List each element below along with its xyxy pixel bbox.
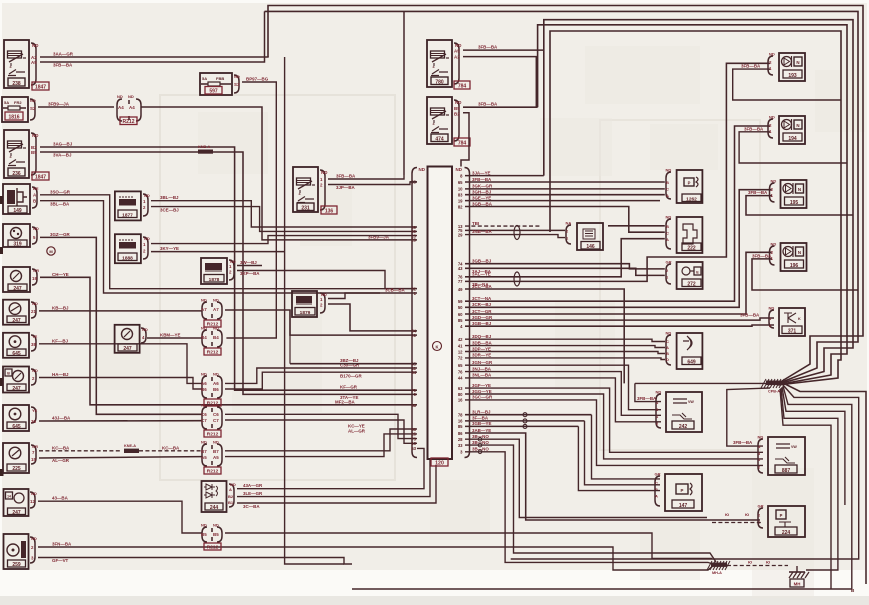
wire 3BL-BA from 149-B — [40, 201, 380, 293]
wire BP97-BG from 597 — [226, 77, 276, 339]
wire ECU78 drop to 147-C — [592, 415, 661, 479]
svg-text:3GB—YE: 3GB—YE — [472, 421, 492, 426]
svg-text:B170—GR: B170—GR — [340, 374, 362, 379]
wire R212 C7 right — [225, 420, 417, 443]
svg-text:21: 21 — [31, 309, 36, 314]
sensor 1879 — [292, 291, 327, 317]
svg-text:3FB—BA: 3FB—BA — [740, 313, 760, 318]
svg-text:GR: GR — [32, 444, 38, 449]
circle conn 78 — [523, 413, 527, 417]
svg-text:3CC—BA: 3CC—BA — [472, 284, 493, 289]
sensor 247 with B — [3, 367, 38, 393]
wire splice fan c — [352, 386, 852, 589]
wire KB-BJ from 247-21 — [39, 305, 202, 311]
svg-text:193: 193 — [788, 73, 797, 79]
svg-text:72: 72 — [458, 356, 463, 361]
svg-text:3GF—YE: 3GF—YE — [472, 383, 491, 388]
svg-text:3GN—GR: 3GN—GR — [472, 360, 493, 365]
wire CH-YE from 247-19 to ECU58 — [40, 272, 417, 405]
wire from 474-B2 — [461, 113, 469, 167]
svg-text:3CE—BJ: 3CE—BJ — [160, 207, 179, 212]
wire 3FB-BA to 242-4 — [635, 383, 661, 401]
svg-text:B4: B4 — [201, 335, 207, 340]
svg-text:15: 15 — [31, 457, 36, 462]
wire label MF2-BA — [335, 399, 356, 404]
svg-text:3GD—GR: 3GD—GR — [472, 315, 493, 320]
wire top bus 2 — [265, 11, 859, 382]
wire GF-VT from 259-3 — [38, 558, 352, 565]
svg-text:C: C — [666, 339, 669, 344]
svg-text:C6: C6 — [201, 412, 207, 417]
svg-text:YE: YE — [32, 408, 38, 413]
wire 3FB-BA to 193-1 — [733, 64, 841, 100]
svg-text:GR: GR — [758, 504, 764, 509]
svg-text:GR: GR — [655, 472, 661, 477]
svg-text:28: 28 — [411, 238, 416, 243]
svg-text:AL—GR: AL—GR — [348, 428, 366, 433]
svg-text:236: 236 — [12, 171, 21, 177]
solenoid 147 — [655, 472, 703, 512]
svg-text:B: B — [666, 180, 669, 185]
wire 3FB-BA from 238-A5 — [40, 11, 265, 67]
svg-text:S3: S3 — [234, 82, 240, 87]
svg-text:A: A — [666, 193, 669, 198]
svg-text:ND: ND — [144, 193, 150, 198]
svg-text:85: 85 — [458, 318, 463, 323]
svg-text:222: 222 — [687, 245, 696, 251]
sensor 371 — [769, 306, 806, 337]
svg-text:B: B — [666, 351, 669, 356]
sensor 1878 — [201, 258, 236, 284]
connector R212 A7 — [201, 298, 222, 328]
svg-text:3VA—BJ: 3VA—BJ — [53, 153, 72, 158]
svg-text:645: 645 — [12, 424, 21, 430]
svg-text:3FB—BA: 3FB—BA — [752, 253, 772, 258]
svg-text:136: 136 — [325, 208, 334, 214]
svg-text:3GE—YE: 3GE—YE — [472, 195, 491, 200]
injector 196 — [770, 242, 807, 272]
svg-text:A2: A2 — [454, 55, 460, 60]
svg-text:N: N — [798, 250, 801, 255]
svg-text:C: C — [666, 187, 669, 192]
svg-text:3SO—GR: 3SO—GR — [50, 189, 71, 194]
svg-text:65: 65 — [458, 180, 463, 185]
svg-text:N: N — [798, 187, 801, 192]
svg-text:VW: VW — [688, 400, 694, 404]
wire ECU85b — [465, 421, 578, 426]
svg-text:244: 244 — [210, 505, 219, 511]
wire 3SO-GR from 149-A — [40, 189, 417, 288]
svg-text:10: 10 — [458, 187, 463, 192]
svg-text:43: 43 — [458, 266, 463, 271]
svg-text:ND: ND — [213, 326, 219, 331]
svg-text:3B—NO: 3B—NO — [472, 440, 489, 445]
solenoid 224 — [758, 504, 806, 538]
svg-text:242: 242 — [679, 424, 688, 430]
svg-text:3JA—YE: 3JA—YE — [472, 170, 491, 175]
svg-text:3CB—BA: 3CB—BA — [385, 288, 406, 293]
wire 3W-BJ from 1878-1 — [237, 260, 262, 266]
ECU right pin numbers — [458, 173, 463, 454]
relay 231 with connector 136 — [293, 167, 337, 214]
svg-text:ND: ND — [455, 100, 462, 105]
wire 3LE-GR from 244-B2 — [237, 460, 430, 497]
wire 3KP-BA from 1878-2 — [237, 271, 417, 289]
svg-text:82: 82 — [458, 204, 463, 209]
svg-text:Ю: Ю — [748, 560, 752, 565]
wire 3AA-GR from 238-A2 — [40, 52, 269, 58]
wire 3VA-BJ from 236-B5 to ECU9 — [40, 152, 417, 400]
wire from 780-A2 — [463, 57, 538, 108]
svg-text:R212: R212 — [207, 544, 219, 550]
svg-text:3GH—BJ: 3GH—BJ — [472, 190, 492, 195]
wire 3GZ-GR from 319 to C6 — [40, 232, 202, 414]
wire ECU42 to 649-C — [465, 334, 665, 342]
svg-text:14: 14 — [7, 495, 11, 499]
svg-text:B1: B1 — [228, 500, 234, 505]
connector R212 B5 — [201, 523, 222, 551]
svg-text:1888: 1888 — [122, 255, 133, 261]
sensor 272 — [666, 260, 703, 290]
connector R212 C6 C7 — [201, 403, 222, 438]
svg-text:5A: 5A — [4, 100, 9, 105]
svg-text:3GC—GR: 3GC—GR — [472, 395, 493, 400]
svg-text:KF—GR: KF—GR — [340, 385, 358, 390]
circle conn 16 — [523, 419, 527, 423]
sensor 1877 — [115, 191, 150, 220]
wire 3FB-BA to 195-1 — [746, 190, 853, 215]
svg-text:3KY—YE: 3KY—YE — [160, 246, 179, 251]
switch unit 238 with connector 1847 — [4, 40, 49, 90]
wire 3FB-BA label 371 — [740, 313, 760, 318]
svg-text:1878: 1878 — [209, 277, 220, 283]
svg-text:R212: R212 — [207, 468, 219, 474]
svg-text:GR: GR — [666, 260, 672, 265]
svg-text:3BL—BA: 3BL—BA — [50, 202, 70, 207]
svg-text:A: A — [229, 487, 232, 492]
wire 3CB-BA from 1879-1 — [328, 288, 417, 299]
svg-text:1877: 1877 — [122, 212, 133, 218]
svg-text:44: 44 — [458, 376, 463, 381]
wire splice to ground — [727, 560, 788, 566]
svg-text:3DQ—BJ: 3DQ—BJ — [472, 334, 492, 339]
wire ECU83 to 1262-A — [465, 190, 665, 195]
svg-text:P: P — [688, 181, 691, 186]
svg-text:CH—YE: CH—YE — [52, 272, 69, 277]
wire splice fan e — [781, 388, 838, 570]
svg-text:ND: ND — [234, 74, 240, 79]
wire top bus 3 — [544, 20, 853, 384]
wire 3FB-BA from 780-A5 — [463, 45, 544, 51]
svg-text:ND: ND — [213, 403, 219, 408]
svg-text:ND: ND — [456, 167, 463, 172]
svg-text:E: E — [696, 270, 699, 274]
svg-text:3GB—BJ: 3GB—BJ — [472, 259, 492, 264]
svg-text:A: A — [666, 237, 669, 242]
ECU left pin numbers — [411, 180, 416, 452]
splice KNE-A on KC wire — [124, 444, 139, 453]
svg-text:ND: ND — [656, 390, 662, 395]
wire from 1879-2 to ECU 54 — [328, 304, 417, 331]
svg-text:P: P — [780, 513, 783, 518]
idle valve 649 — [666, 331, 703, 370]
svg-text:B2: B2 — [454, 112, 460, 117]
wire ECU12 to 649-B — [465, 346, 665, 353]
svg-text:43J—BA: 43J—BA — [52, 416, 71, 421]
svg-text:C7: C7 — [213, 418, 219, 423]
wire ECU82 to 222-C — [465, 201, 665, 232]
wire ECU80 to 887-1 — [465, 389, 763, 459]
svg-text:38: 38 — [31, 342, 36, 347]
svg-text:3AB—YE: 3AB—YE — [472, 428, 491, 433]
ground splice MH — [707, 561, 730, 575]
inline oval a — [514, 226, 520, 240]
svg-text:3NL—BA: 3NL—BA — [472, 373, 492, 378]
svg-text:ND: ND — [32, 301, 38, 306]
svg-text:120: 120 — [435, 460, 444, 466]
svg-text:ND: ND — [769, 115, 775, 120]
svg-text:MH: MH — [794, 582, 801, 587]
wire ECU85 drop to 147-A — [578, 426, 660, 490]
wire ECU4 to 371-2 — [465, 321, 774, 326]
svg-text:247: 247 — [12, 510, 21, 516]
svg-text:3GK—GR: 3GK—GR — [472, 184, 493, 189]
svg-text:ND: ND — [142, 327, 148, 332]
sensor 222 — [666, 215, 703, 254]
svg-text:C6: C6 — [213, 412, 219, 417]
wire R212 B5 right — [225, 533, 712, 559]
svg-text:16: 16 — [458, 398, 463, 403]
svg-text:KBM—YE: KBM—YE — [160, 333, 181, 338]
circle conn 85 — [523, 424, 527, 428]
svg-text:3KP—BA: 3KP—BA — [240, 271, 260, 276]
svg-text:ND: ND — [758, 435, 764, 440]
svg-text:21: 21 — [411, 333, 416, 338]
svg-text:ND: ND — [33, 226, 39, 231]
svg-text:BP97—BG: BP97—BG — [246, 77, 269, 82]
wire ECU16 drop to 147-B — [585, 421, 661, 485]
svg-text:53: 53 — [411, 446, 416, 451]
svg-text:ND: ND — [666, 168, 672, 173]
svg-text:247: 247 — [12, 318, 21, 324]
wire top bus 4 — [538, 25, 847, 385]
svg-text:3GZ—GR: 3GZ—GR — [50, 232, 71, 237]
svg-text:FBB: FBB — [216, 76, 224, 81]
svg-text:319: 319 — [13, 242, 22, 248]
svg-text:ND: ND — [213, 523, 219, 528]
svg-text:A6: A6 — [201, 381, 207, 386]
svg-text:KNB-A: KNB-A — [198, 145, 210, 149]
svg-text:ND: ND — [769, 306, 775, 311]
wire splice fan f — [780, 389, 831, 589]
svg-text:ND: ND — [321, 170, 328, 175]
heater 887 — [758, 435, 806, 476]
wire 3C-BA from 244-B1 — [237, 465, 436, 509]
wire 3KY-YE from 1888-2 — [151, 246, 285, 252]
svg-text:3FB—BA: 3FB—BA — [748, 190, 768, 195]
svg-text:49: 49 — [458, 287, 463, 292]
svg-text:474: 474 — [435, 136, 444, 142]
svg-text:76: 76 — [458, 369, 463, 374]
connector R212 A6 B6 — [201, 372, 222, 407]
svg-text:R212: R212 — [123, 119, 135, 125]
connector R212 B7 A5 — [201, 440, 222, 475]
svg-text:225: 225 — [12, 466, 21, 472]
wire R212 C6 right — [225, 414, 417, 438]
wire R212 B7 right — [225, 424, 417, 451]
svg-text:ND: ND — [32, 43, 39, 48]
svg-text:MH-A: MH-A — [712, 571, 722, 575]
svg-text:3BL—BJ: 3BL—BJ — [160, 195, 179, 200]
svg-text:3FB—BA: 3FB—BA — [744, 126, 764, 131]
wire KBM-YE to R212 B4 — [147, 333, 202, 339]
wire ECU72 to 649-D — [465, 353, 665, 360]
svg-text:B6: B6 — [201, 387, 207, 392]
svg-text:KC—BA: KC—BA — [52, 445, 70, 450]
svg-text:42: 42 — [458, 337, 463, 342]
svg-text:194: 194 — [788, 136, 797, 142]
svg-text:ND: ND — [771, 242, 777, 247]
svg-text:3FB—BA: 3FB—BA — [741, 64, 761, 69]
wire 3FB-BA to 196-1 — [752, 253, 858, 290]
wire ECU16 to 887-2 — [465, 395, 763, 466]
svg-text:50: 50 — [458, 305, 463, 310]
wire ECU38 left — [410, 181, 417, 183]
svg-text:3JP—BA: 3JP—BA — [336, 185, 356, 190]
svg-text:3AG—BJ: 3AG—BJ — [53, 142, 73, 147]
svg-text:3B—NO: 3B—NO — [472, 447, 489, 452]
svg-text:63: 63 — [458, 386, 463, 391]
svg-text:3FB—BA: 3FB—BA — [472, 177, 492, 182]
svg-text:A6: A6 — [213, 381, 219, 386]
svg-text:3FB—BA: 3FB—BA — [637, 396, 657, 401]
sensor 225 — [3, 443, 38, 473]
svg-text:A7: A7 — [201, 307, 207, 312]
svg-text:3LE—GR: 3LE—GR — [243, 491, 263, 496]
svg-text:238: 238 — [12, 81, 21, 87]
svg-text:43A—GR: 43A—GR — [243, 483, 263, 488]
svg-text:3DB—BA: 3DB—BA — [472, 340, 493, 345]
svg-text:ND: ND — [419, 167, 426, 172]
svg-text:A5: A5 — [31, 60, 37, 65]
wire R212 A6 right — [225, 363, 417, 384]
svg-text:1847: 1847 — [35, 84, 46, 90]
wire ECU44 to 242-2 — [465, 373, 661, 422]
svg-text:1816: 1816 — [8, 114, 19, 120]
svg-text:1262: 1262 — [686, 196, 697, 202]
wire 43A-GR from 244-A — [237, 448, 424, 488]
svg-text:149: 149 — [13, 208, 22, 214]
wire splice to 887 — [727, 388, 770, 446]
svg-text:3C—BA: 3C—BA — [243, 504, 260, 509]
svg-text:GF—VT: GF—VT — [52, 558, 69, 563]
svg-text:887: 887 — [782, 468, 791, 474]
connector R212 B4 — [201, 326, 222, 356]
svg-text:N: N — [796, 123, 799, 128]
svg-text:597: 597 — [209, 88, 218, 94]
wire KC-BA to R212 B7 — [139, 445, 202, 451]
wire splice fan b — [511, 385, 859, 559]
wire ECU86 down — [465, 428, 760, 520]
svg-text:ND: ND — [117, 94, 123, 99]
wire splice feed corner — [635, 382, 768, 384]
svg-text:247: 247 — [13, 286, 22, 292]
svg-text:ND: ND — [201, 440, 207, 445]
svg-text:Ю: Ю — [725, 512, 729, 517]
svg-text:59: 59 — [458, 299, 463, 304]
wire ECU76 to 222-A — [465, 239, 665, 277]
wire ECU50 to 195-2 — [465, 190, 772, 308]
connector circles rows 28 33 3 — [478, 437, 482, 453]
wire splice fan d — [782, 387, 845, 505]
svg-text:3AL—YE: 3AL—YE — [472, 272, 491, 277]
connector R212 A4 — [117, 94, 141, 125]
svg-text:B5: B5 — [201, 532, 207, 537]
svg-text:3W—BJ: 3W—BJ — [240, 260, 257, 265]
svg-text:A: A — [666, 345, 669, 350]
svg-text:ND: ND — [213, 440, 219, 445]
svg-text:3FN—BA: 3FN—BA — [52, 542, 72, 547]
svg-text:231: 231 — [301, 205, 310, 211]
wire ECU16b — [465, 416, 585, 421]
wire 3FB9-JA from 1816 — [38, 102, 114, 108]
svg-text:3FB—BA: 3FB—BA — [336, 174, 356, 179]
sensor 645 upper — [3, 333, 38, 358]
svg-text:85: 85 — [458, 424, 463, 429]
wire to 222-B — [608, 225, 665, 227]
fuse 1816 5A FR2 — [2, 97, 36, 122]
wire ECU49 to splice feed — [465, 284, 624, 384]
svg-text:3F—BA: 3F—BA — [472, 416, 489, 421]
wire 3CE-BJ from 1877-2 — [151, 207, 417, 232]
svg-text:3BZ—BJ: 3BZ—BJ — [340, 358, 359, 363]
svg-text:65: 65 — [458, 363, 463, 368]
svg-text:3FB—BA: 3FB—BA — [478, 102, 498, 107]
svg-text:KNE-A: KNE-A — [124, 444, 136, 448]
svg-text:ND: ND — [32, 133, 39, 138]
svg-text:649: 649 — [687, 359, 696, 365]
sensor 319 — [3, 224, 39, 248]
wire left riser x284 — [285, 57, 344, 564]
svg-text:3GG—YE: 3GG—YE — [472, 389, 492, 394]
injector 193 — [768, 52, 805, 82]
svg-text:195: 195 — [790, 200, 799, 206]
svg-text:146: 146 — [586, 244, 595, 250]
wire R212 A7 to ECU 21 — [225, 310, 417, 335]
wire dashes to 224 — [712, 512, 763, 523]
svg-text:3LR—BJ: 3LR—BJ — [472, 410, 491, 415]
wire 3JP-BA from 231-2 — [328, 182, 417, 190]
svg-text:780: 780 — [435, 79, 444, 85]
svg-text:KC—BA: KC—BA — [162, 445, 180, 450]
wire ECU77 to 193-2 — [465, 63, 770, 287]
svg-text:41: 41 — [458, 343, 463, 348]
svg-text:12: 12 — [30, 499, 35, 504]
sensor 247 lower — [4, 489, 37, 516]
wire ECU29 to 146-1 — [465, 235, 565, 238]
svg-text:K: K — [798, 317, 801, 321]
svg-text:P: P — [681, 488, 684, 493]
svg-text:3GB—BA: 3GB—BA — [472, 201, 493, 206]
wire ECU33 to ground — [465, 440, 716, 562]
wire ECU76 to 242-1 — [465, 366, 661, 415]
relay 780 with connector 784 — [427, 40, 470, 89]
wire ECU74 to 272-2 — [465, 259, 665, 269]
svg-text:ND: ND — [128, 94, 134, 99]
wire KC-BA dashed from 225-7 — [39, 445, 122, 451]
svg-text:A: A — [655, 494, 658, 499]
svg-text:A5: A5 — [213, 455, 219, 460]
